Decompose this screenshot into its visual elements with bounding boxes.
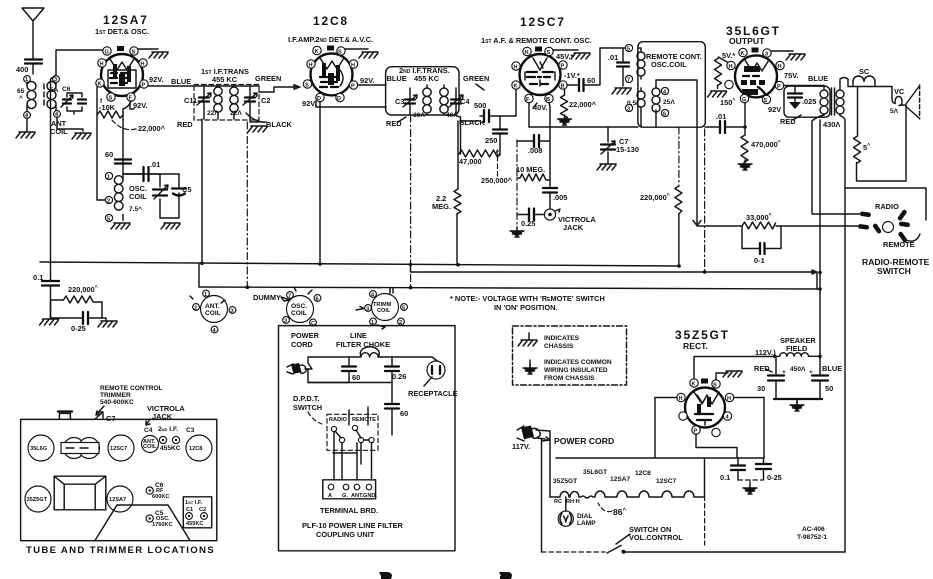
- svg-text:-10K: -10K: [99, 103, 116, 112]
- svg-text:.005: .005: [553, 193, 567, 202]
- wire: [57, 93, 83, 131]
- svg-text:600KC: 600KC: [152, 494, 169, 500]
- node 5 osc: [105, 214, 112, 221]
- svg-text:WIRING INSULATED: WIRING INSULATED: [544, 367, 608, 374]
- svg-text:1: 1: [204, 292, 207, 298]
- svg-text:S: S: [132, 50, 136, 56]
- ground insulated avc: [510, 227, 524, 237]
- svg-text:BLUE: BLUE: [808, 74, 828, 83]
- svg-text:SWITCH: SWITCH: [877, 266, 911, 276]
- svg-text:RECT.: RECT.: [683, 341, 708, 351]
- svg-text:FROM CHASSIS: FROM CHASSIS: [544, 375, 595, 382]
- heater chain resistor: [550, 491, 704, 498]
- svg-text:5V.*: 5V.*: [722, 51, 735, 60]
- pot wiper arrow: [495, 150, 500, 176]
- capacitor .01 rc: [617, 63, 629, 67]
- svg-text:10 MEG.: 10 MEG.: [516, 165, 545, 174]
- antenna: [22, 8, 44, 58]
- svg-text:ANT.: ANT.: [205, 303, 220, 310]
- svg-text:LINE: LINE: [350, 331, 367, 340]
- U2 pin cap: [327, 46, 334, 51]
- svg-text:C6: C6: [62, 86, 71, 93]
- rc coil 2: [637, 88, 645, 111]
- U3 pin K left: [512, 81, 520, 89]
- U4 pin H left: [727, 61, 735, 69]
- svg-text:540-600KC: 540-600KC: [100, 399, 134, 406]
- ground: [786, 54, 805, 60]
- wire grid lead T1 to U2: [259, 85, 300, 92]
- wire B+ vertical right: [819, 120, 821, 355]
- U5 pin H left: [677, 393, 685, 401]
- U2 heater V: [320, 58, 344, 69]
- svg-text:D.P.D.T.: D.P.D.T.: [293, 394, 320, 403]
- U5 pin 4: [723, 412, 731, 420]
- trimmer C3: [405, 100, 415, 104]
- U3 heater V: [533, 58, 547, 70]
- svg-text:2: 2: [107, 199, 110, 205]
- svg-text:.01: .01: [716, 112, 726, 121]
- U3 pin B right: [559, 81, 567, 89]
- output transformer box: [784, 86, 830, 117]
- capacitor .01 osc: [144, 167, 149, 181]
- svg-text:60: 60: [352, 373, 360, 382]
- terminal board: [323, 480, 376, 499]
- node junction dots: [200, 262, 204, 266]
- S2 blade contacts: [858, 209, 910, 243]
- svg-text:D: D: [337, 96, 341, 102]
- dpdt switch box: [327, 414, 378, 450]
- IF transformer T1 box: [194, 85, 259, 121]
- svg-text:DUMMY: DUMMY: [253, 293, 281, 302]
- victrola jack J1: [544, 209, 555, 220]
- speaker: [906, 87, 919, 119]
- svg-text:H: H: [778, 64, 782, 70]
- wire rc coil2 bottom: [640, 111, 642, 127]
- svg-text:92V.: 92V.: [302, 99, 317, 108]
- ground: [708, 91, 727, 97]
- svg-text:C2: C2: [261, 96, 270, 105]
- svg-text:CORD: CORD: [291, 340, 313, 349]
- svg-text:COIL: COIL: [291, 310, 307, 317]
- svg-text:INDICATES: INDICATES: [544, 335, 580, 342]
- ground: [72, 133, 91, 139]
- svg-text:455KC: 455KC: [160, 445, 181, 452]
- U1 grid bars: [110, 73, 128, 83]
- svg-text:12SC7: 12SC7: [110, 446, 127, 452]
- wire OT secondary top to SC coil: [840, 78, 853, 88]
- capacitor C5: [160, 174, 179, 218]
- svg-text:K: K: [741, 51, 745, 57]
- resistor 220,000 left: [51, 296, 103, 318]
- trimmer C7 chassis: [95, 412, 103, 419]
- gang capacitor: [64, 438, 85, 459]
- capacitor 400: [25, 60, 42, 64]
- svg-text:MEG.: MEG.: [432, 202, 451, 211]
- svg-text:1ST I.F.: 1ST I.F.: [185, 500, 203, 506]
- trimmer C2: [245, 98, 255, 102]
- svg-text:H: H: [351, 63, 355, 69]
- U2 pin Sg: [303, 80, 311, 88]
- svg-text:22Λ: 22Λ: [230, 110, 242, 117]
- svg-text:1ST A.F. & REMOTE CONT. OSC.: 1ST A.F. & REMOTE CONT. OSC.: [481, 36, 592, 45]
- OT primary: [820, 86, 828, 116]
- U1 pin B2: [127, 93, 135, 101]
- T1 secondary coil: [230, 86, 238, 119]
- U3 pin H top: [523, 47, 531, 55]
- wire G bias to U4: [744, 103, 746, 127]
- ant coil secondary: [47, 82, 56, 112]
- switch S1 lever: [607, 546, 621, 554]
- svg-text:GREEN: GREEN: [255, 74, 281, 83]
- svg-text:RADIO: RADIO: [329, 417, 348, 423]
- svg-text:22,000^: 22,000^: [138, 124, 166, 133]
- svg-text:500: 500: [474, 101, 486, 110]
- U4 pin top right: [763, 49, 771, 57]
- capacitor 0.26: [385, 367, 399, 372]
- U3 pin cap: [535, 47, 542, 52]
- svg-text:S: S: [338, 50, 342, 56]
- svg-text:92V.: 92V.: [149, 75, 164, 84]
- resistor 47000 vol control: [459, 150, 500, 157]
- speaker field coil: [775, 353, 811, 357]
- svg-text:RED: RED: [177, 120, 193, 129]
- ant coil primary: [27, 82, 36, 113]
- capacitor 0.1 left: [42, 281, 59, 286]
- wire osc tank top: [123, 173, 179, 175]
- svg-text:+: +: [809, 369, 813, 376]
- node 4b: [54, 111, 61, 118]
- ground: [98, 321, 117, 327]
- svg-text:47,000: 47,000: [459, 157, 482, 166]
- osc coil: [114, 174, 123, 220]
- wire plug to chain: [542, 431, 551, 552]
- resistor 470,000: [741, 127, 748, 166]
- svg-text:POWER CORD: POWER CORD: [554, 436, 614, 446]
- wire plf top rail: [305, 357, 440, 369]
- capacitor .01 coupling: [720, 121, 725, 133]
- node 2 osc: [105, 196, 112, 203]
- svg-text:C5: C5: [182, 185, 191, 194]
- svg-text:3: 3: [627, 107, 630, 113]
- U1 pin K: [96, 79, 104, 87]
- svg-text:220,000^: 220,000^: [68, 285, 98, 294]
- svg-text:33,000^: 33,000^: [746, 213, 772, 222]
- trimmer C5a: [154, 174, 168, 218]
- svg-text:65: 65: [17, 88, 25, 95]
- svg-text:C7: C7: [106, 414, 115, 423]
- U5 pin K: [690, 379, 698, 387]
- OT core: [832, 88, 835, 115]
- capacitor 50: [812, 376, 828, 381]
- svg-text:S: S: [764, 98, 768, 104]
- svg-text:.01: .01: [150, 160, 160, 169]
- capacitor 30: [768, 376, 784, 381]
- svg-text:3: 3: [366, 307, 369, 313]
- svg-text:0.1: 0.1: [720, 473, 730, 482]
- svg-text:BLACK: BLACK: [459, 118, 486, 127]
- svg-text:I.F.AMP.2ND DET.& A.V.C.: I.F.AMP.2ND DET.& A.V.C.: [288, 35, 373, 44]
- wire remote blade link: [906, 234, 920, 241]
- wire U2 diode return: [320, 102, 386, 264]
- U2 pin K: [313, 46, 321, 54]
- svg-text:OSC.: OSC.: [291, 303, 307, 310]
- svg-text:G: G: [742, 97, 746, 103]
- svg-text:VC: VC: [894, 87, 905, 96]
- svg-text:PLF-10 POWER LINE FILTER: PLF-10 POWER LINE FILTER: [302, 521, 404, 530]
- wire field to B+: [810, 355, 820, 358]
- svg-text:GREEN: GREEN: [463, 74, 489, 83]
- wire U2 top to ground: [345, 48, 368, 50]
- svg-text:450Λ: 450Λ: [790, 366, 806, 373]
- wire secondary bottom / black: [250, 119, 259, 122]
- svg-text:12SA7: 12SA7: [103, 13, 149, 27]
- svg-text:22Λ: 22Λ: [207, 110, 219, 117]
- svg-text:5A: 5A: [50, 87, 59, 94]
- svg-text:25Λ: 25Λ: [663, 99, 675, 106]
- wire bus interlink: [198, 264, 200, 287]
- svg-text:BLUE: BLUE: [822, 364, 842, 373]
- svg-text:DIAL: DIAL: [577, 513, 592, 520]
- bus AVC: [199, 287, 820, 289]
- svg-text:220,000^: 220,000^: [640, 193, 670, 202]
- node dot: [743, 125, 747, 129]
- wire: [26, 118, 28, 131]
- remote control osc coil box: [638, 42, 705, 128]
- U2 pin H left: [307, 60, 315, 68]
- svg-text:75V.: 75V.: [784, 71, 799, 80]
- svg-text:50: 50: [825, 384, 833, 393]
- resistor 10 MEG: [517, 174, 550, 181]
- svg-text:12SC7: 12SC7: [656, 478, 676, 485]
- ground: [738, 160, 752, 170]
- wire RED plate line to switch: [812, 115, 860, 214]
- svg-text:C3: C3: [186, 427, 195, 434]
- trimmer C5: [146, 515, 153, 522]
- wire U5 heater left: [655, 398, 677, 459]
- svg-text:GND.: GND.: [363, 493, 377, 499]
- resistor 150: [715, 57, 728, 89]
- U5 pin P: [692, 426, 700, 434]
- svg-text:0.26: 0.26: [392, 372, 406, 381]
- resistor 22000 af: [561, 89, 568, 121]
- node 6: [661, 109, 668, 116]
- location 12SC7: [108, 435, 134, 461]
- capacitor 0-25 left: [83, 312, 88, 324]
- rc coil right: [652, 86, 660, 116]
- U2 pin Df: [316, 93, 324, 101]
- svg-text:22,000^: 22,000^: [569, 100, 597, 109]
- ground: [359, 52, 378, 58]
- svg-text:H: H: [100, 62, 104, 68]
- wire T2 secondary to C13: [455, 115, 480, 154]
- capacitor 60 plf2: [385, 404, 399, 409]
- resistor -10K: [97, 111, 123, 118]
- T2 primary coil: [423, 85, 431, 115]
- svg-text:S: S: [305, 83, 309, 89]
- U4 pin NC left: [725, 80, 733, 88]
- svg-text:LAMP: LAMP: [577, 520, 596, 527]
- svg-text:5Λ: 5Λ: [890, 108, 899, 115]
- ground: [111, 223, 130, 229]
- svg-text:12SA7: 12SA7: [610, 476, 630, 483]
- wire T1 top interconnect: [194, 85, 259, 87]
- wire U2 plate to T2: [358, 84, 387, 86]
- svg-text:1: 1: [107, 175, 110, 181]
- node 1 osc: [105, 172, 112, 179]
- svg-text:BLUE: BLUE: [387, 74, 407, 83]
- wire U4 plate to OT: [784, 85, 824, 87]
- svg-text:RADIO: RADIO: [875, 202, 899, 211]
- svg-text:470,000^: 470,000^: [751, 140, 781, 149]
- trimm coil location circle: [372, 294, 399, 321]
- svg-text:.008: .008: [528, 146, 542, 155]
- wire caps to ground dashed: [738, 480, 763, 488]
- U2 pin Dt: [336, 93, 344, 101]
- svg-text:TUBE AND TRIMMER LOCATIONS: TUBE AND TRIMMER LOCATIONS: [26, 545, 215, 556]
- wire caps common to ground: [774, 398, 822, 400]
- location 12C8: [186, 435, 212, 461]
- svg-text:A: A: [328, 493, 332, 499]
- wire bottom bus: [624, 551, 846, 553]
- U1 pin cap: [117, 46, 124, 51]
- svg-text:RC: RC: [554, 499, 562, 505]
- svg-text:92V.: 92V.: [133, 101, 148, 110]
- svg-text:C3: C3: [395, 97, 404, 106]
- svg-text:BLUE: BLUE: [171, 77, 191, 86]
- capacitor 0.25 jack: [529, 209, 534, 221]
- svg-text:0.25: 0.25: [521, 219, 535, 228]
- svg-text:OSC.COIL: OSC.COIL: [651, 60, 687, 69]
- svg-text:FILTER CHOKE: FILTER CHOKE: [336, 340, 390, 349]
- svg-text:H: H: [679, 396, 683, 402]
- svg-text:1760KC: 1760KC: [152, 522, 173, 528]
- svg-text:60: 60: [105, 150, 113, 159]
- U5 internals: [697, 397, 711, 414]
- trimmer C6: [146, 487, 153, 494]
- resistor 220,000: [678, 127, 680, 186]
- svg-text:6: 6: [316, 297, 319, 303]
- svg-text:C2: C2: [199, 507, 206, 513]
- svg-text:P: P: [142, 83, 146, 89]
- svg-text:REMOTE CONTROL: REMOTE CONTROL: [100, 385, 163, 392]
- 1st IF box: [183, 497, 211, 528]
- wire U1 top to ground: [138, 48, 158, 50]
- svg-text:3: 3: [765, 52, 768, 58]
- svg-text:COIL: COIL: [129, 192, 147, 201]
- ground: [248, 126, 267, 132]
- svg-text:COUPLING UNIT: COUPLING UNIT: [316, 530, 375, 539]
- wire AVC dashed from C2: [246, 122, 248, 287]
- U3 pin Sg top: [545, 47, 553, 55]
- wire SC to VC: [875, 87, 895, 104]
- svg-text:5: 5: [627, 47, 630, 53]
- svg-text:30: 30: [757, 384, 765, 393]
- wire grid line down: [123, 101, 131, 174]
- ant coil location circle: [201, 296, 228, 323]
- wire T1 primary bottom to bus: [201, 119, 203, 263]
- svg-text:H: H: [727, 396, 731, 402]
- ground: [743, 484, 757, 494]
- svg-text:BLACK: BLACK: [266, 120, 293, 129]
- U4 heater V: [745, 60, 769, 71]
- svg-text:RED: RED: [754, 364, 770, 373]
- svg-text:FIELD: FIELD: [786, 344, 808, 353]
- svg-text:P: P: [777, 84, 781, 90]
- svg-text:TRIMMER: TRIMMER: [100, 392, 131, 399]
- resistor 33,000: [742, 222, 776, 229]
- svg-text:COIL: COIL: [377, 308, 391, 314]
- capacitor 250: [493, 130, 507, 134]
- U1 pin B1: [107, 93, 115, 101]
- wire grid lead to U1: [56, 50, 104, 75]
- svg-text:P: P: [561, 64, 565, 70]
- U3 pin Fc: [525, 94, 533, 102]
- wire U3 grid down: [549, 103, 550, 187]
- IF transformer T2 box: [386, 67, 459, 115]
- svg-text:6: 6: [663, 112, 666, 118]
- U4 pin Sg: [762, 95, 770, 103]
- legend chassis symbol: [528, 333, 530, 340]
- trimmer C11: [199, 98, 209, 102]
- capacitor .025: [788, 94, 802, 98]
- svg-text:TERMINAL BRD.: TERMINAL BRD.: [320, 506, 378, 515]
- T2 secondary coil: [440, 85, 448, 115]
- mast: [59, 413, 70, 419]
- svg-text:0-1: 0-1: [754, 256, 765, 265]
- location ant coil: [142, 436, 159, 453]
- PLF box: [279, 326, 456, 551]
- ground: [161, 223, 180, 229]
- U5 pin cap: [701, 379, 708, 384]
- svg-text:RED: RED: [780, 117, 796, 126]
- svg-text:COIL: COIL: [50, 127, 68, 136]
- svg-text:IN 'ON' POSITION.: IN 'ON' POSITION.: [494, 303, 557, 312]
- svg-text:ANT.: ANT.: [351, 493, 364, 499]
- wire long AVC vertical: [51, 75, 57, 262]
- ground: [612, 88, 631, 94]
- legend box: [513, 326, 627, 385]
- U3 pin Bo: [545, 94, 553, 102]
- wire U5 plate down: [696, 434, 737, 458]
- svg-text:COIL: COIL: [205, 310, 221, 317]
- svg-text:400: 400: [16, 65, 28, 74]
- svg-text:455 KC: 455 KC: [212, 75, 238, 84]
- svg-text:AC-406: AC-406: [802, 526, 825, 533]
- U2 internals: [322, 63, 340, 85]
- U1 pin H left: [98, 59, 106, 67]
- capacitor: [78, 100, 86, 104]
- svg-text:S: S: [547, 50, 551, 56]
- svg-text:12C8: 12C8: [189, 446, 202, 452]
- ground: [149, 52, 168, 58]
- trimmer C7: [601, 127, 615, 163]
- wire VC down: [905, 105, 907, 181]
- svg-text:K: K: [514, 84, 518, 90]
- svg-text:7.5^: 7.5^: [129, 205, 142, 213]
- capacitor .005: [543, 188, 557, 193]
- svg-text:G.: G.: [342, 493, 348, 499]
- bottom cut glyph 2: [499, 572, 512, 579]
- svg-text:K: K: [98, 82, 102, 88]
- svg-text:K: K: [692, 382, 696, 388]
- capacitor 60: [115, 160, 131, 164]
- location 12SA7: [107, 486, 133, 512]
- svg-text:250: 250: [485, 136, 497, 145]
- ground: [597, 164, 616, 170]
- svg-text:0.1: 0.1: [33, 273, 43, 282]
- svg-text:60: 60: [400, 409, 408, 418]
- U5 pin NC2: [712, 428, 720, 436]
